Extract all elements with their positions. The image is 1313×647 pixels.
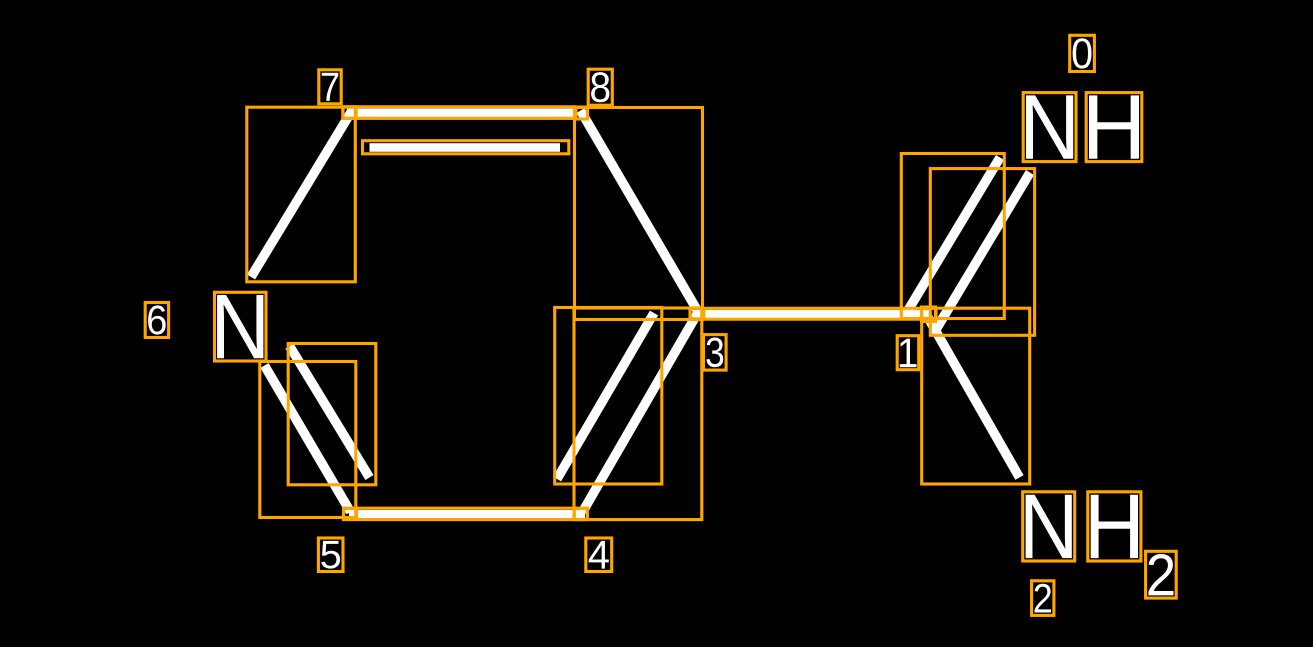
atom N0 of NH bbox=[1026, 95, 1073, 158]
NH2 subscript 2 bbox=[1035, 584, 1052, 613]
bond 8-3 line bbox=[581, 111, 699, 313]
glyph box H2 bbox=[1088, 492, 1141, 561]
bond 6-5 inner line bbox=[290, 346, 370, 478]
label box 3 bbox=[704, 335, 727, 371]
bond 1-0 right line bbox=[935, 173, 1031, 333]
glyph box N2 bbox=[1023, 492, 1075, 561]
label box 1 bbox=[897, 336, 919, 370]
glyph box subscript2 bbox=[1032, 581, 1054, 616]
box bond 6-5 inner bbox=[288, 344, 376, 485]
box bond 6-5 outer bbox=[260, 362, 356, 518]
box bond 4-5 bbox=[344, 508, 588, 519]
box bond 1-0 right bbox=[930, 169, 1034, 336]
label digit 1 bbox=[900, 339, 917, 368]
bond 3-4 inner line bbox=[557, 313, 654, 479]
atom box 7 bbox=[343, 107, 356, 118]
label digit 6 bbox=[148, 305, 166, 334]
box bond 3-1 bbox=[690, 308, 936, 319]
label digit 0 bbox=[1073, 38, 1092, 68]
box bond 1-0 left bbox=[901, 154, 1004, 319]
label digit 7 bbox=[322, 73, 339, 101]
glyph box N0 bbox=[1023, 93, 1076, 162]
glyph box H0 bbox=[1086, 93, 1142, 162]
box bond 3-4 inner bbox=[555, 308, 662, 485]
bond 1-2 line bbox=[926, 314, 1020, 478]
atom H0 of NH bbox=[1089, 95, 1139, 158]
label box 0 bbox=[1070, 35, 1095, 71]
atom box 8 bbox=[576, 107, 588, 119]
label box 7 bbox=[319, 70, 341, 104]
label digit 4 bbox=[589, 541, 609, 569]
box bond 1-2 bbox=[922, 308, 1030, 484]
box bond 8-3 bbox=[575, 108, 703, 320]
bond 4-5 line bbox=[349, 510, 585, 518]
label box 2 bbox=[1146, 551, 1177, 598]
atom H2 of NH2 bbox=[1091, 495, 1138, 558]
atom N2 of NH2 bbox=[1026, 495, 1072, 558]
label digit 8 bbox=[591, 72, 609, 102]
label box 4 bbox=[586, 538, 612, 572]
bond 1-0 left line bbox=[906, 158, 1001, 315]
glyph box N6 bbox=[215, 292, 267, 361]
box bond 7-8 bbox=[343, 107, 575, 119]
label box 5 bbox=[318, 538, 343, 572]
label box 8 bbox=[588, 69, 612, 105]
label digit 2 bbox=[1148, 554, 1173, 595]
bond 6-5 outer line bbox=[265, 366, 351, 513]
box bond 3-4 outer bbox=[574, 308, 702, 520]
label box 6 bbox=[145, 303, 168, 338]
label digit 5 bbox=[321, 541, 340, 569]
atom box 5 bbox=[344, 508, 357, 519]
bond 3-1 line bbox=[693, 310, 931, 319]
box bond 7-8 inner bbox=[363, 141, 569, 154]
atom box 4 bbox=[574, 508, 587, 519]
bond 7-8 inner line bbox=[370, 143, 561, 152]
atom box 3 bbox=[690, 309, 704, 319]
bond 6-7 line bbox=[251, 111, 352, 278]
box bond 6-7 bbox=[247, 107, 355, 282]
atom box 1 bbox=[922, 307, 936, 322]
bond 7-8 main line bbox=[347, 109, 574, 117]
bond 3-4 outer line bbox=[583, 312, 699, 513]
label digit 3 bbox=[706, 337, 723, 367]
atom N6 ring nitrogen bbox=[217, 295, 263, 358]
